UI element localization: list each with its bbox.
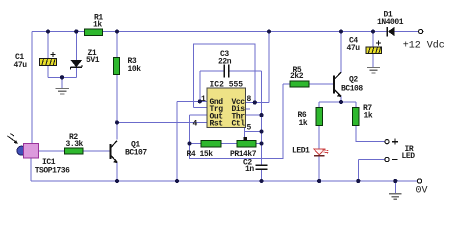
svg-text:IC2 555: IC2 555: [210, 81, 244, 90]
svg-text:2k2: 2k2: [290, 72, 304, 81]
wire C3 loop right horizontal: [229, 70, 261, 72]
junction C3 Gnd pin node: [198, 99, 202, 103]
ground G3: [389, 194, 402, 200]
resistor R7: [353, 104, 373, 126]
capacitor C2: [243, 159, 267, 174]
wire R6 top stub: [318, 102, 320, 108]
wire emitter node row to R6 and R7: [319, 101, 356, 103]
IR receiver IC1 TSOP1736: [17, 144, 70, 176]
wire 555 Gnd pin to ground line: [177, 100, 207, 102]
transistor Q2 BC108: [333, 72, 364, 97]
resistor R5: [290, 66, 309, 87]
wire timing bus below C2 to 0V: [261, 170, 263, 181]
transistor Q1 BC107: [109, 141, 147, 164]
svg-text:Rst: Rst: [210, 120, 224, 129]
svg-text:LED1: LED1: [292, 147, 310, 156]
wire R2 to Q1 base: [83, 150, 109, 152]
junction Q1 collector Rst node: [115, 120, 119, 124]
svg-text:Q2: Q2: [349, 76, 358, 85]
wire C4 top: [372, 32, 374, 48]
wire D1 cathode to +12 terminal: [395, 31, 419, 33]
output minus terminal: [385, 157, 398, 161]
junction C1 Z1 ground node: [60, 75, 64, 79]
wire C1 bottom: [47, 65, 49, 77]
zener Z1: [71, 49, 100, 69]
wire top rail right segment: [103, 31, 387, 33]
wire IC1 bottom to 0V rail: [30, 158, 32, 181]
+12 Vdc terminal: [403, 29, 445, 51]
junction 555 ground 0V rail: [175, 179, 179, 183]
wire C1 top: [47, 32, 49, 59]
wire R3 bottom to Q1 collector: [116, 75, 118, 140]
wire left vertical from rail to IC1: [31, 32, 33, 144]
junction minus terminal 0V rail: [356, 179, 360, 183]
wire top rail left segment: [32, 31, 85, 33]
wire R6 bottom to LED1: [318, 126, 320, 149]
junction C4 D1 top rail: [371, 29, 375, 33]
capacitor C4 electrolytic: [347, 37, 382, 54]
output plus terminal: [385, 139, 398, 145]
wire Q2 collector to rail: [340, 32, 342, 73]
svg-text:4: 4: [193, 120, 198, 129]
junction C1 top rail: [46, 29, 50, 33]
svg-text:1n: 1n: [245, 165, 254, 174]
resistor R3: [114, 57, 142, 75]
wire Thr pin 6: [246, 114, 262, 116]
capacitor C1 electrolytic: [14, 52, 57, 70]
wire Q2 emitter junction: [340, 96, 342, 102]
wire R5 to Q2 base: [309, 83, 333, 85]
ground G1: [55, 88, 69, 94]
wire R4 left lead: [190, 143, 202, 145]
svg-text:1N4001: 1N4001: [377, 18, 404, 27]
wire R4 to PR1 lead: [221, 143, 237, 145]
wire ground line down to 0V rail: [176, 101, 178, 181]
junction Q2 collector top rail: [339, 29, 343, 33]
resistor R4: [187, 140, 222, 159]
svg-text:1k: 1k: [364, 112, 373, 121]
0V terminal: [416, 179, 428, 197]
wire Trg stub: [193, 107, 207, 109]
wire PR1 right lead: [256, 143, 262, 145]
wire Ctl pin 5 down: [244, 128, 246, 138]
svg-text:1k: 1k: [299, 119, 308, 128]
junction Vcc pin 8 node: [253, 100, 257, 104]
resistor R6: [298, 108, 323, 129]
IR input arrow: [8, 134, 18, 144]
junction LED1 0V rail: [317, 179, 321, 183]
junction Q2 emitter node: [339, 100, 343, 104]
svg-text:3.3k: 3.3k: [66, 140, 84, 149]
svg-text:BC107: BC107: [125, 149, 147, 158]
junction ground G3 0V rail: [393, 179, 397, 183]
svg-text:BC108: BC108: [341, 85, 363, 94]
wire C3 left leg to Gnd node: [199, 71, 201, 101]
svg-text:1: 1: [201, 95, 206, 104]
wire minus terminal to 0V rail: [358, 160, 385, 182]
resistor R1: [85, 14, 104, 36]
wire LED1 cathode to 0V: [318, 156, 320, 181]
svg-text:TSOP1736: TSOP1736: [35, 167, 70, 176]
wire R7 bottom to plus terminal: [356, 126, 385, 142]
LED1: [292, 147, 329, 156]
capacitor C3: [218, 50, 232, 78]
svg-text:22n: 22n: [218, 58, 232, 67]
wire Trg loop up and over to Vcc node: [193, 44, 255, 108]
wire Vcc pin to +12 branch: [246, 102, 270, 104]
wire R5 left lead: [283, 83, 290, 85]
junction Ctl pin 5 node: [259, 129, 263, 133]
junction Thr pin 6 node: [259, 113, 263, 117]
junction Q1 emitter 0V rail: [115, 179, 119, 183]
svg-text:10k: 10k: [128, 65, 142, 74]
wire Z1 top: [75, 32, 77, 61]
junction Out R4 node: [187, 142, 191, 146]
wire Dis stub pin 7: [246, 108, 251, 110]
wire bottom 0V rail: [31, 180, 418, 182]
svg-text:47u: 47u: [14, 61, 28, 70]
junction R3 top rail: [115, 29, 119, 33]
svg-text:1k: 1k: [93, 21, 102, 30]
wire Q1 collector to 555 Rst pin 4: [117, 121, 207, 123]
svg-text:LED: LED: [402, 152, 416, 161]
wire C3 loop left horizontal: [200, 70, 224, 72]
svg-text:8: 8: [247, 95, 252, 104]
wire R7 top stub: [355, 102, 357, 108]
wire ground stem G1: [61, 77, 63, 88]
svg-text:R4 15k: R4 15k: [187, 150, 214, 159]
junction PR1 right node: [259, 142, 263, 146]
svg-text:5V1: 5V1: [86, 56, 100, 65]
junction Z1 top rail: [74, 29, 78, 33]
wire Out down to R4 node and under labels to R5: [190, 84, 284, 158]
svg-text:47u: 47u: [347, 44, 361, 53]
wire +12 branch vertical: [268, 32, 270, 103]
svg-text:+12 Vdc: +12 Vdc: [403, 40, 445, 52]
svg-text:0V: 0V: [416, 186, 428, 197]
junction Vcc branch top rail: [267, 29, 271, 33]
wire IC1 out to R2: [39, 150, 65, 152]
wire C1-Z1 ground joint: [48, 76, 76, 78]
wire ground stem G3: [394, 181, 396, 193]
wire Q1 emitter to 0V rail: [116, 162, 118, 182]
preset PR1: [230, 137, 257, 159]
resistor R2: [65, 133, 84, 154]
svg-text:Ctl: Ctl: [232, 120, 246, 129]
wire Z1 bottom: [75, 67, 77, 77]
diode D1 1N4001: [377, 11, 404, 37]
IC2 555 timer body: [207, 81, 246, 129]
wire Ctl pin 5 to timing bus: [245, 131, 262, 133]
wire R3 top: [116, 32, 118, 58]
svg-text:5: 5: [247, 124, 252, 133]
label IR LED: [402, 145, 416, 161]
ground G2: [367, 68, 380, 74]
wire C4 bottom to ground G2: [372, 54, 374, 67]
wire timing bus vertical (Thr/Ctl/PR1/C2): [261, 71, 263, 165]
wire Out pin 3 stub: [190, 114, 208, 116]
junction C2 0V rail: [259, 179, 263, 183]
